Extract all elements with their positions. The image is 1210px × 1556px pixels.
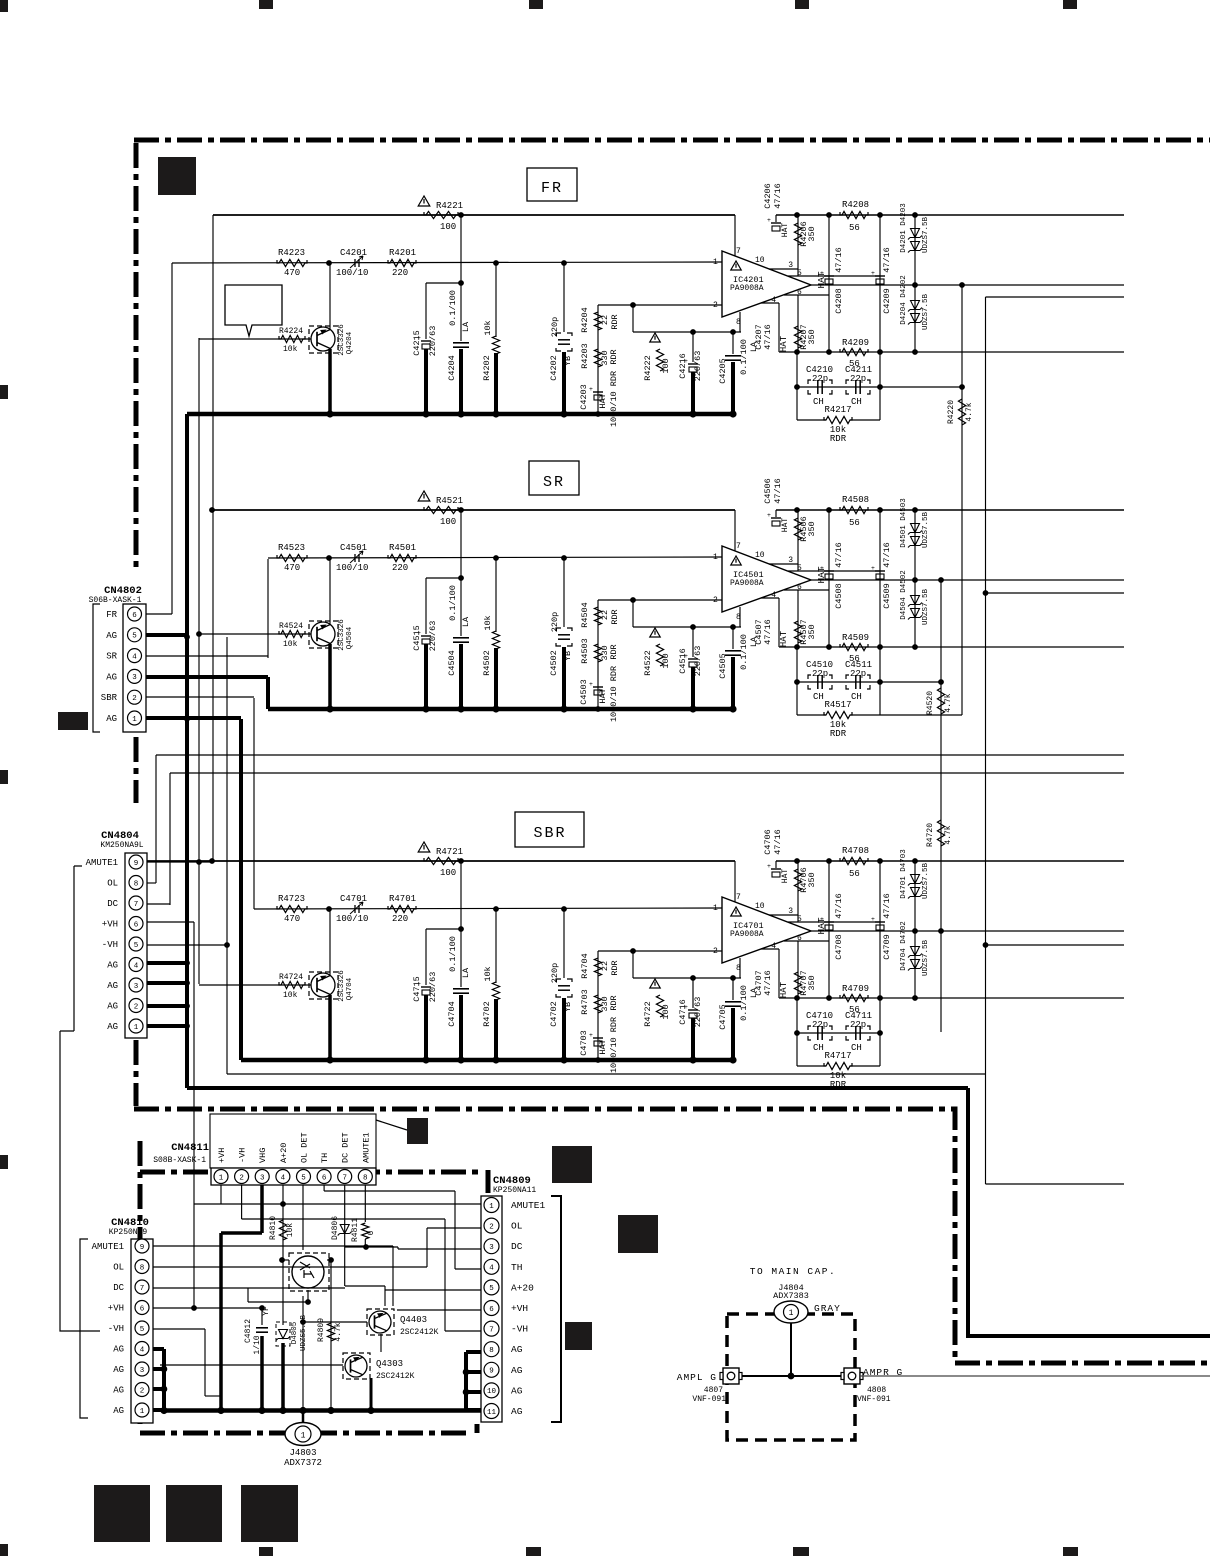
svg-text:22: 22 — [600, 315, 610, 325]
svg-text:R4509: R4509 — [842, 633, 869, 643]
svg-text:4: 4 — [140, 1346, 145, 1354]
svg-text:470: 470 — [284, 563, 300, 573]
svg-text:4: 4 — [132, 653, 137, 661]
svg-text:C4503: C4503 — [579, 679, 589, 705]
svg-text:220/63: 220/63 — [428, 326, 438, 357]
svg-text:350: 350 — [807, 521, 817, 536]
svg-text:2: 2 — [132, 695, 137, 703]
svg-text:CH: CH — [851, 1043, 862, 1053]
svg-text:350: 350 — [807, 624, 817, 639]
svg-text:-VH: -VH — [102, 940, 118, 950]
svg-text:R4508: R4508 — [842, 495, 869, 505]
svg-text:AG: AG — [511, 1344, 523, 1355]
svg-text:DC: DC — [107, 899, 118, 909]
svg-text:ADX7372: ADX7372 — [284, 1458, 322, 1468]
svg-text:YB: YB — [563, 356, 573, 366]
svg-text:+: + — [767, 863, 771, 870]
svg-text:Q4704: Q4704 — [346, 977, 354, 1000]
svg-text:+VH: +VH — [108, 1304, 124, 1314]
svg-text:R4221: R4221 — [436, 201, 463, 211]
svg-text:1: 1 — [132, 716, 137, 724]
svg-text:AMPL G: AMPL G — [677, 1372, 717, 1383]
svg-text:4.7k: 4.7k — [334, 1322, 343, 1341]
svg-text:0.1/100: 0.1/100 — [448, 585, 458, 621]
svg-text:100: 100 — [661, 358, 671, 373]
svg-text:GRAY: GRAY — [814, 1303, 841, 1314]
svg-text:22: 22 — [600, 961, 610, 971]
svg-text:C4706: C4706 — [763, 829, 773, 855]
svg-text:C4205: C4205 — [718, 358, 728, 384]
svg-text:100: 100 — [440, 517, 456, 527]
svg-text:Q4504: Q4504 — [346, 626, 354, 649]
svg-text:YB: YB — [563, 651, 573, 661]
svg-text:HAT: HAT — [779, 981, 789, 998]
svg-text:5: 5 — [132, 633, 137, 641]
svg-text:220/63: 220/63 — [693, 351, 703, 382]
svg-text:KP250NA11: KP250NA11 — [493, 1186, 536, 1195]
svg-text:ADX7383: ADX7383 — [773, 1291, 809, 1301]
svg-text:AG: AG — [107, 1022, 118, 1032]
svg-text:8: 8 — [489, 1347, 494, 1355]
svg-text:HAT: HAT — [781, 869, 790, 884]
svg-text:C4501: C4501 — [340, 543, 367, 553]
svg-text:56: 56 — [849, 518, 860, 528]
svg-text:100/10: 100/10 — [336, 563, 368, 573]
svg-text:R4201: R4201 — [389, 248, 416, 258]
svg-text:1/10: 1/10 — [253, 1335, 262, 1354]
svg-text:R4721: R4721 — [436, 847, 463, 857]
svg-text:9: 9 — [134, 860, 139, 868]
svg-text:8: 8 — [134, 880, 139, 888]
svg-text:VHG: VHG — [258, 1148, 268, 1163]
svg-text:4808: 4808 — [867, 1386, 886, 1395]
svg-text:2SC3326: 2SC3326 — [338, 619, 346, 651]
svg-text:2: 2 — [239, 1174, 244, 1182]
svg-text:C4216: C4216 — [678, 353, 688, 379]
svg-text:6: 6 — [489, 1306, 494, 1314]
svg-text:10k: 10k — [483, 966, 493, 981]
svg-text:47/16: 47/16 — [773, 478, 783, 504]
svg-text:10: 10 — [755, 902, 765, 911]
svg-text:R4502: R4502 — [482, 650, 492, 676]
svg-text:2: 2 — [713, 301, 718, 310]
svg-text:47/16: 47/16 — [773, 829, 783, 855]
svg-text:+VH: +VH — [511, 1303, 528, 1314]
svg-text:7: 7 — [140, 1285, 145, 1293]
svg-text:+VH: +VH — [102, 920, 118, 930]
svg-text:RDR: RDR — [830, 1080, 847, 1090]
svg-text:47/16: 47/16 — [834, 247, 844, 273]
svg-text:LA: LA — [461, 321, 471, 332]
svg-text:7: 7 — [342, 1174, 347, 1182]
svg-text:10k: 10k — [283, 640, 298, 649]
svg-text:C4702: C4702 — [549, 1001, 559, 1027]
svg-text:R4704: R4704 — [580, 953, 590, 979]
svg-text:CN4811: CN4811 — [171, 1142, 209, 1154]
svg-text:4: 4 — [771, 942, 776, 951]
svg-text:AMUTE1: AMUTE1 — [86, 858, 118, 868]
svg-text:22: 22 — [600, 610, 610, 620]
svg-text:UDZS7.5B: UDZS7.5B — [922, 940, 930, 977]
svg-text:YF: YF — [262, 1306, 271, 1316]
svg-text:TH: TH — [320, 1153, 330, 1163]
svg-text:AG: AG — [107, 981, 118, 991]
svg-text:R4702: R4702 — [482, 1001, 492, 1027]
svg-text:0.1/100: 0.1/100 — [739, 985, 749, 1021]
svg-text:4: 4 — [281, 1174, 286, 1182]
svg-text:C4215: C4215 — [412, 330, 422, 356]
svg-text:22p: 22p — [850, 374, 866, 384]
svg-text:R4723: R4723 — [278, 894, 305, 904]
svg-text:R4722: R4722 — [643, 1001, 653, 1027]
svg-text:HAT: HAT — [779, 335, 789, 352]
svg-text:R4522: R4522 — [643, 650, 653, 676]
svg-text:100: 100 — [440, 222, 456, 232]
svg-text:4.7k: 4.7k — [944, 825, 953, 844]
svg-text:220: 220 — [392, 268, 408, 278]
svg-text:C4715: C4715 — [412, 976, 422, 1002]
svg-text:CH: CH — [813, 1043, 824, 1053]
svg-text:+: + — [767, 512, 771, 519]
svg-text:HAT: HAT — [598, 393, 608, 408]
svg-text:C4515: C4515 — [412, 625, 422, 651]
svg-text:3: 3 — [140, 1367, 145, 1375]
svg-text:YB: YB — [563, 1002, 573, 1012]
svg-text:DC DET: DC DET — [341, 1132, 351, 1163]
svg-text:7: 7 — [736, 542, 741, 551]
svg-text:0.1/100: 0.1/100 — [448, 936, 458, 972]
svg-text:350: 350 — [807, 975, 817, 990]
svg-text:47/16: 47/16 — [834, 542, 844, 568]
svg-text:Q4204: Q4204 — [346, 331, 354, 354]
svg-text:4: 4 — [134, 962, 139, 970]
svg-text:+: + — [589, 386, 593, 393]
svg-text:UDZS7.5B: UDZS7.5B — [922, 863, 930, 900]
svg-text:AG: AG — [107, 1002, 118, 1012]
svg-text:4807: 4807 — [704, 1386, 723, 1395]
svg-text:10: 10 — [755, 551, 765, 560]
svg-text:OL: OL — [511, 1221, 523, 1232]
svg-text:47/16: 47/16 — [882, 247, 892, 273]
svg-text:C4709: C4709 — [882, 934, 892, 960]
svg-text:UDZS7.5B: UDZS7.5B — [922, 512, 930, 549]
svg-text:10k: 10k — [283, 991, 298, 1000]
svg-text:470: 470 — [284, 914, 300, 924]
svg-text:1: 1 — [789, 1309, 794, 1318]
svg-text:100: 100 — [661, 1004, 671, 1019]
svg-text:AG: AG — [511, 1406, 523, 1417]
svg-text:R4222: R4222 — [643, 355, 653, 381]
svg-text:CH: CH — [851, 397, 862, 407]
svg-text:4.7k: 4.7k — [944, 693, 953, 712]
svg-text:1: 1 — [301, 1431, 306, 1440]
svg-text:220p: 220p — [550, 612, 560, 632]
svg-text:220p: 220p — [550, 963, 560, 983]
svg-text:DC: DC — [113, 1283, 124, 1293]
svg-text:5: 5 — [489, 1285, 494, 1293]
svg-text:D4704 D4702: D4704 D4702 — [900, 921, 908, 971]
svg-text:R4208: R4208 — [842, 200, 869, 210]
svg-text:A+20: A+20 — [279, 1143, 289, 1163]
svg-text:OL: OL — [107, 879, 118, 889]
svg-text:5: 5 — [301, 1174, 306, 1182]
svg-text:R4204: R4204 — [580, 307, 590, 333]
svg-text:2SC2412K: 2SC2412K — [376, 1372, 415, 1381]
svg-text:1000/10 RDR: 1000/10 RDR — [609, 1017, 619, 1073]
svg-text:10: 10 — [487, 1388, 497, 1396]
svg-text:2: 2 — [489, 1223, 494, 1231]
svg-text:RDR: RDR — [609, 995, 619, 1010]
svg-text:D4201 D4203: D4201 D4203 — [900, 203, 908, 253]
svg-text:7: 7 — [134, 901, 139, 909]
svg-text:22p: 22p — [850, 669, 866, 679]
svg-text:AG: AG — [113, 1406, 124, 1416]
svg-text:350: 350 — [807, 329, 817, 344]
svg-text:AG: AG — [511, 1365, 523, 1376]
svg-text:2: 2 — [713, 947, 718, 956]
svg-text:350: 350 — [807, 226, 817, 241]
svg-text:220/63: 220/63 — [428, 621, 438, 652]
svg-text:AG: AG — [511, 1385, 523, 1396]
svg-text:Q4303: Q4303 — [376, 1359, 403, 1369]
svg-text:C4201: C4201 — [340, 248, 367, 258]
svg-text:3: 3 — [260, 1174, 265, 1182]
svg-text:RDR: RDR — [610, 314, 620, 329]
svg-text:C4705: C4705 — [718, 1004, 728, 1030]
svg-text:A+20: A+20 — [511, 1282, 534, 1293]
svg-text:HAT: HAT — [816, 917, 827, 934]
svg-text:C4203: C4203 — [579, 384, 589, 410]
svg-text:R4724: R4724 — [279, 973, 303, 982]
svg-text:1000/10 RDR: 1000/10 RDR — [609, 666, 619, 722]
svg-text:C4516: C4516 — [678, 648, 688, 674]
svg-text:0.1/100: 0.1/100 — [739, 634, 749, 670]
svg-text:CH: CH — [813, 397, 824, 407]
svg-text:Q4403: Q4403 — [400, 1315, 427, 1325]
svg-text:R4717: R4717 — [824, 1051, 851, 1061]
svg-text:D4504 D4502: D4504 D4502 — [900, 570, 908, 620]
svg-text:D4701 D4703: D4701 D4703 — [900, 849, 908, 899]
svg-text:8: 8 — [140, 1264, 145, 1272]
svg-text:4.7k: 4.7k — [965, 402, 974, 421]
svg-text:22p: 22p — [812, 374, 828, 384]
svg-text:C4716: C4716 — [678, 999, 688, 1025]
svg-text:R4703: R4703 — [580, 989, 590, 1015]
svg-text:AG: AG — [106, 672, 117, 682]
svg-text:47/16: 47/16 — [763, 619, 773, 645]
svg-text:C4704: C4704 — [447, 1001, 457, 1027]
svg-text:RDR: RDR — [830, 434, 847, 444]
svg-text:220: 220 — [392, 563, 408, 573]
svg-text:C4701: C4701 — [340, 894, 367, 904]
svg-text:C4208: C4208 — [834, 288, 844, 314]
svg-text:C4504: C4504 — [447, 650, 457, 676]
svg-text:R4203: R4203 — [580, 343, 590, 369]
svg-text:C4508: C4508 — [834, 583, 844, 609]
svg-text:R4224: R4224 — [279, 327, 303, 336]
svg-text:100/10: 100/10 — [336, 914, 368, 924]
svg-text:C4509: C4509 — [882, 583, 892, 609]
svg-text:47/16: 47/16 — [882, 893, 892, 919]
svg-text:S08B-XASK-1: S08B-XASK-1 — [153, 1156, 206, 1165]
svg-text:R4811: R4811 — [351, 1218, 360, 1242]
svg-text:220/63: 220/63 — [693, 646, 703, 677]
svg-text:RDR: RDR — [610, 960, 620, 975]
svg-text:VNF-091: VNF-091 — [692, 1395, 726, 1404]
svg-text:1: 1 — [134, 1024, 139, 1032]
svg-text:RDR: RDR — [830, 729, 847, 739]
svg-text:470: 470 — [284, 268, 300, 278]
svg-text:100: 100 — [661, 653, 671, 668]
svg-text:CH: CH — [813, 692, 824, 702]
svg-text:220: 220 — [392, 914, 408, 924]
svg-text:RDR: RDR — [609, 349, 619, 364]
svg-text:1: 1 — [713, 258, 718, 267]
svg-text:AG: AG — [107, 961, 118, 971]
svg-text:FR: FR — [106, 610, 117, 620]
svg-text:7: 7 — [736, 247, 741, 256]
svg-text:2: 2 — [713, 596, 718, 605]
svg-text:AMUTE1: AMUTE1 — [511, 1200, 546, 1211]
svg-text:47/16: 47/16 — [763, 324, 773, 350]
svg-text:10k: 10k — [483, 615, 493, 630]
svg-text:HAT: HAT — [779, 630, 789, 647]
svg-text:C4812: C4812 — [244, 1319, 253, 1343]
svg-text:10k: 10k — [483, 320, 493, 335]
svg-text:C4703: C4703 — [579, 1030, 589, 1056]
svg-text:56: 56 — [849, 223, 860, 233]
svg-text:AG: AG — [106, 631, 117, 641]
svg-text:-VH: -VH — [108, 1324, 124, 1334]
svg-text:R4521: R4521 — [436, 496, 463, 506]
svg-text:47/16: 47/16 — [834, 893, 844, 919]
svg-text:47/16: 47/16 — [882, 542, 892, 568]
svg-text:R4701: R4701 — [389, 894, 416, 904]
svg-text:SBR: SBR — [101, 693, 118, 703]
svg-text:7: 7 — [736, 893, 741, 902]
svg-text:22p: 22p — [812, 1020, 828, 1030]
svg-text:R4708: R4708 — [842, 846, 869, 856]
svg-text:R4709: R4709 — [842, 984, 869, 994]
svg-text:1: 1 — [489, 1203, 494, 1211]
svg-text:AG: AG — [106, 714, 117, 724]
svg-text:10k: 10k — [286, 1223, 295, 1238]
svg-text:9: 9 — [140, 1244, 145, 1252]
svg-text:R4504: R4504 — [580, 602, 590, 628]
svg-text:C4206: C4206 — [763, 183, 773, 209]
svg-text:OL DET: OL DET — [300, 1132, 310, 1163]
svg-text:1000/10 RDR: 1000/10 RDR — [609, 371, 619, 427]
svg-text:SBR: SBR — [533, 825, 566, 842]
svg-text:R4217: R4217 — [824, 405, 851, 415]
svg-text:D4501 D4503: D4501 D4503 — [900, 498, 908, 548]
svg-text:SR: SR — [106, 652, 117, 662]
svg-text:100: 100 — [440, 868, 456, 878]
svg-text:AG: AG — [113, 1365, 124, 1375]
svg-text:C4209: C4209 — [882, 288, 892, 314]
svg-text:HAT: HAT — [781, 518, 790, 533]
svg-text:R4209: R4209 — [842, 338, 869, 348]
svg-text:HAT: HAT — [598, 688, 608, 703]
svg-text:R4720: R4720 — [926, 823, 935, 847]
svg-text:+VH: +VH — [217, 1148, 227, 1163]
svg-text:56: 56 — [849, 869, 860, 879]
svg-text:220/63: 220/63 — [693, 997, 703, 1028]
svg-text:9: 9 — [489, 1368, 494, 1376]
svg-text:PA9008A: PA9008A — [730, 284, 764, 293]
svg-text:C4506: C4506 — [763, 478, 773, 504]
svg-text:0.1/100: 0.1/100 — [448, 290, 458, 326]
svg-text:PA9008A: PA9008A — [730, 579, 764, 588]
svg-text:C4204: C4204 — [447, 355, 457, 381]
svg-text:4: 4 — [489, 1265, 494, 1273]
svg-text:2: 2 — [134, 1003, 139, 1011]
svg-text:6: 6 — [134, 921, 139, 929]
svg-text:D4805: D4805 — [291, 1321, 299, 1344]
svg-text:OL: OL — [113, 1263, 124, 1273]
svg-text:D4204 D4202: D4204 D4202 — [900, 275, 908, 325]
svg-text:+: + — [767, 217, 771, 224]
svg-text:RDR: RDR — [610, 609, 620, 624]
svg-text:HAT: HAT — [816, 566, 827, 583]
svg-text:1: 1 — [713, 553, 718, 562]
svg-text:AG: AG — [113, 1386, 124, 1396]
svg-text:-VH: -VH — [238, 1148, 248, 1163]
svg-text:3: 3 — [132, 674, 137, 682]
svg-text:R4220: R4220 — [947, 400, 956, 424]
svg-text:C4505: C4505 — [718, 653, 728, 679]
svg-text:R4503: R4503 — [580, 638, 590, 664]
svg-text:7: 7 — [489, 1326, 494, 1334]
svg-text:5: 5 — [140, 1326, 145, 1334]
svg-text:8: 8 — [363, 1174, 368, 1182]
svg-text:UDZS7.5B: UDZS7.5B — [922, 217, 930, 254]
svg-text:350: 350 — [807, 872, 817, 887]
svg-text:R4523: R4523 — [278, 543, 305, 553]
svg-text:0: 0 — [367, 1230, 376, 1235]
svg-text:C4708: C4708 — [834, 934, 844, 960]
svg-text:CH: CH — [851, 692, 862, 702]
svg-text:1: 1 — [713, 904, 718, 913]
svg-text:RDR: RDR — [609, 644, 619, 659]
svg-text:PA9008A: PA9008A — [730, 930, 764, 939]
svg-text:2SC2412K: 2SC2412K — [400, 1328, 439, 1337]
svg-text:22p: 22p — [812, 669, 828, 679]
svg-text:100/10: 100/10 — [336, 268, 368, 278]
svg-text:220/63: 220/63 — [428, 972, 438, 1003]
svg-text:2: 2 — [140, 1387, 145, 1395]
svg-text:AG: AG — [113, 1345, 124, 1355]
svg-text:2SC3326: 2SC3326 — [338, 970, 346, 1002]
svg-text:KP250NA9: KP250NA9 — [109, 1228, 148, 1237]
svg-text:+: + — [589, 1032, 593, 1039]
svg-text:AMUTE1: AMUTE1 — [92, 1242, 124, 1252]
svg-text:6: 6 — [132, 612, 137, 620]
svg-text:6: 6 — [140, 1305, 145, 1313]
svg-text:10: 10 — [755, 256, 765, 265]
svg-text:47/16: 47/16 — [763, 970, 773, 996]
svg-text:1: 1 — [219, 1174, 224, 1182]
svg-text:3: 3 — [489, 1244, 494, 1252]
svg-text:TO MAIN CAP.: TO MAIN CAP. — [750, 1266, 836, 1277]
svg-text:-VH: -VH — [511, 1324, 528, 1335]
svg-text:47/16: 47/16 — [773, 183, 783, 209]
svg-text:KM250NA9L: KM250NA9L — [100, 841, 143, 850]
svg-text:1: 1 — [140, 1408, 145, 1416]
svg-text:HAT: HAT — [598, 1039, 608, 1054]
svg-text:220p: 220p — [550, 317, 560, 337]
svg-text:+: + — [589, 681, 593, 688]
